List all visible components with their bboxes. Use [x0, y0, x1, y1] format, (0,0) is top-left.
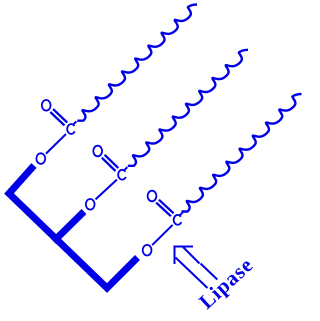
glycerol backbone arm C2-O2 [54, 212, 85, 242]
lipase arrow shaft right line [183, 247, 217, 280]
fatty acid chain 1 (squiggle) [77, 5, 197, 121]
double bond C1=O1d [50, 109, 67, 125]
atom label O2d (carbonyl oxygen) [93, 146, 102, 157]
atom label O1d (carbonyl oxygen) [42, 100, 51, 111]
bond O3-C3 [152, 225, 172, 245]
lipase arrow shaft left line [176, 258, 208, 289]
atom label O3 (ester oxygen) [143, 245, 152, 256]
bond C3-chain [179, 212, 183, 216]
atom label O2 (ester oxygen) [86, 199, 95, 210]
atom label O3d (carbonyl oxygen) [148, 191, 157, 202]
lipase arrow head top barb [174, 246, 193, 248]
bond O2-C2 [96, 180, 117, 200]
bond O1-C1 [46, 134, 66, 154]
double bond C2=O2d [102, 155, 119, 171]
fatty acid chain 3 (squiggle) [182, 94, 302, 212]
lipase arrow head left barb [174, 246, 176, 265]
atom label C1 (carbonyl carbon) [67, 124, 75, 134]
glycerol backbone: arm to O1, spine C1-C2-C3, arm to O3 [9, 166, 138, 289]
bond C1-chain [73, 121, 77, 125]
atom label O1 (ester oxygen) [36, 153, 45, 164]
bond C2-chain [124, 167, 128, 171]
atom label C2 (carbonyl carbon) [118, 170, 126, 180]
atom label C3 (carbonyl carbon) [174, 215, 182, 225]
double bond C3=O3d [156, 200, 173, 217]
fatty acid chain 2 (squiggle) [128, 50, 248, 166]
